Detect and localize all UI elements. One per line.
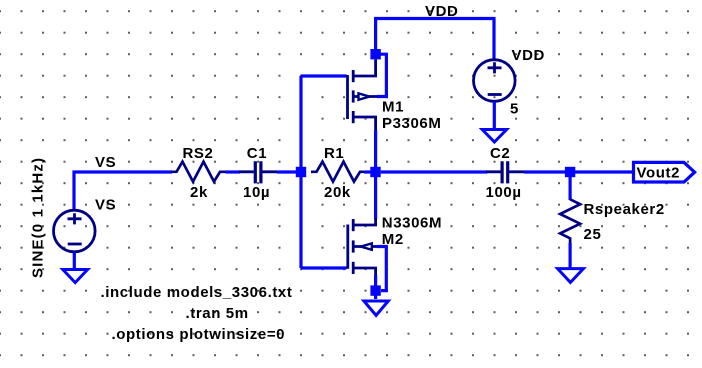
wire drain node to C2 <box>381 170 487 173</box>
wire gate bus vertical <box>299 76 302 268</box>
svg-text:.options plotwinsize=0: .options plotwinsize=0 <box>112 326 286 343</box>
svg-text:VS: VS <box>95 154 116 171</box>
svg-text:.tran 5m: .tran 5m <box>186 305 249 322</box>
voltage source VDD supply <box>474 60 516 102</box>
svg-text:100µ: 100µ <box>486 184 522 201</box>
svg-text:C2: C2 <box>490 145 510 162</box>
wire node to M2 drain <box>374 176 377 219</box>
wire M2 bulk to source node <box>377 247 386 291</box>
svg-text:VDD: VDD <box>425 3 458 20</box>
wire VDD top rail <box>376 19 494 61</box>
capacitor C2 <box>486 161 524 183</box>
ground under VDD <box>482 130 506 143</box>
wire node to Vout2 flag <box>575 170 633 173</box>
wire VS bottom to ground <box>73 252 76 269</box>
wire R1 to drain node <box>364 170 373 173</box>
svg-text:P3306M: P3306M <box>382 115 441 132</box>
resistor RS2 <box>171 162 226 182</box>
wire RS2 to C1 <box>226 170 241 173</box>
junction M1 source node <box>370 49 380 59</box>
svg-text:N3306M: N3306M <box>382 215 442 232</box>
wire Rspeaker2 to ground <box>568 243 571 268</box>
svg-text:C1: C1 <box>247 145 267 162</box>
wire VS source to main line <box>74 172 172 211</box>
svg-text:20k: 20k <box>324 184 351 201</box>
node flag Vout2 <box>634 162 695 182</box>
wire M1 source to bulk <box>377 54 386 96</box>
wire C1 to node <box>277 170 299 173</box>
svg-text:M1: M1 <box>382 99 404 116</box>
junction output node <box>565 167 575 177</box>
transistor M2 NMOS <box>348 218 378 277</box>
wire M2 source down <box>374 275 377 299</box>
svg-text:.include models_3306.txt: .include models_3306.txt <box>101 284 293 301</box>
wire C2 to output node <box>524 170 567 173</box>
junction M2 source node <box>370 285 380 295</box>
junction drain node <box>370 167 380 177</box>
voltage source V1 (VS) <box>54 210 96 252</box>
transistor M1 PMOS <box>348 60 378 133</box>
resistor R1 <box>311 162 366 182</box>
svg-text:RS2: RS2 <box>183 145 214 162</box>
ground under M2 <box>364 301 388 315</box>
wire gate lead M1 <box>301 74 347 77</box>
wire M1 drain to node <box>374 130 377 168</box>
svg-text:2k: 2k <box>190 184 208 201</box>
svg-text:25: 25 <box>584 226 602 243</box>
svg-text:Rspeaker2: Rspeaker2 <box>584 201 665 218</box>
capacitor C1 <box>239 161 277 183</box>
svg-text:R1: R1 <box>324 145 344 162</box>
ground under VS <box>63 270 88 283</box>
svg-text:VDD: VDD <box>512 47 545 64</box>
junction node at gate bus <box>296 167 306 177</box>
svg-text:SINE(0 1 1kHz): SINE(0 1 1kHz) <box>30 157 47 278</box>
wire VDD source to ground <box>493 102 496 130</box>
M2 bulk arrow <box>361 243 372 249</box>
ground under Rspeaker2 <box>558 269 584 283</box>
wire output node to Rspeaker2 <box>568 176 571 200</box>
svg-text:Vout2: Vout2 <box>637 165 681 182</box>
wire gate lead M2 <box>301 266 347 269</box>
svg-text:VS: VS <box>95 197 116 214</box>
svg-text:10µ: 10µ <box>243 184 270 201</box>
svg-text:5: 5 <box>510 101 519 118</box>
resistor Rspeaker2 <box>560 199 580 243</box>
M1 bulk arrow <box>359 93 370 99</box>
